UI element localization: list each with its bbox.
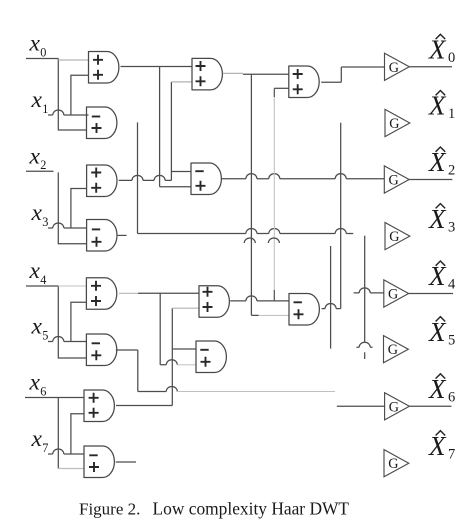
wire S3 output stub — [118, 234, 127, 236]
svg-text:x: x — [31, 426, 43, 452]
svg-text:4: 4 — [448, 277, 456, 293]
A1 plus top — [93, 55, 103, 65]
A6 plus bottom — [203, 302, 213, 312]
wire G4 output — [409, 293, 453, 295]
wire x1 up branch to A1 lower input — [71, 75, 89, 115]
svg-text:0: 0 — [448, 50, 455, 66]
svg-text:G: G — [389, 229, 399, 245]
svg-text:7: 7 — [42, 441, 48, 455]
wire x6 branch to S7 lower input (faint) — [58, 468, 84, 470]
A2 plus bottom — [196, 76, 206, 86]
wire x3 with hop over x2 branch — [48, 223, 87, 228]
wire S5 output to descent at x=137.8 — [116, 350, 138, 392]
wire x5 with hop over x4 branch — [48, 336, 86, 341]
svg-text:5: 5 — [448, 332, 455, 348]
node T-junction at (159.6, 66.5) vertical down to S2 lower input — [160, 67, 191, 187]
node T-junction at (160.2,293.3) vertical down to S6 lower input — [160, 293, 166, 365]
adder A5 (x4+x5) — [86, 277, 116, 310]
svg-text:G: G — [389, 116, 399, 132]
svg-text:6: 6 — [40, 384, 46, 398]
wire A3 output with hops over x=137.5 and x=159.6, corner up at x=171.4 — [119, 175, 172, 180]
S1 minus top — [92, 116, 100, 118]
subtractor S7 (x6-x7) — [84, 446, 114, 479]
wire branch to S2 top input — [171, 171, 191, 173]
subtractor S2 (s0-s1) — [191, 163, 221, 196]
svg-text:2: 2 — [448, 163, 455, 179]
adder A4 (sum -> X0) — [289, 66, 319, 99]
wire x7 with hop over x6 branch — [48, 449, 84, 454]
wire A6 lower input stub (faint) — [172, 307, 199, 309]
wire A6 output to S4 top input with hop over x=251.4 — [230, 296, 289, 301]
wire G2 output — [409, 179, 452, 181]
A1 plus bottom — [93, 70, 103, 80]
wire vertical x=364.7 (dangling, y235.6-359) — [364, 236, 366, 359]
A7 plus bottom — [89, 408, 99, 418]
adder A6 (s2+s3) — [199, 285, 229, 318]
S4 minus top — [294, 301, 302, 303]
wire S5 signal faint line to G6 region — [177, 391, 335, 393]
S7 minus top — [89, 454, 97, 456]
wire A5 output to A6 top input (faint near arc) — [119, 292, 138, 294]
wire x4 to adder A5 top input (faint) — [58, 285, 86, 287]
svg-text:G: G — [388, 342, 398, 358]
svg-text:G: G — [389, 399, 399, 415]
svg-text:x: x — [29, 143, 41, 169]
wire A4 output jog up to G0 — [321, 67, 384, 82]
S7 plus bottom — [89, 462, 99, 472]
wire x0 down branch at x=58 — [58, 59, 86, 131]
S6 minus top — [200, 349, 208, 351]
svg-text:4: 4 — [40, 273, 46, 287]
A7 plus top — [89, 393, 99, 403]
A3 plus bottom — [91, 183, 101, 193]
adder A3 (x2+x3) — [87, 165, 117, 198]
S6 plus bottom — [201, 357, 211, 367]
gain buffer G0 — [385, 53, 410, 80]
svg-text:Figure 2.: Figure 2. — [79, 500, 140, 519]
gain buffer G6 — [385, 393, 410, 420]
gain buffer G4 — [384, 280, 409, 307]
S3 minus top — [92, 228, 100, 230]
wire S3-row feed line from S1 (y=233.5) with hops, ends dangling — [138, 228, 354, 233]
wire G6 input — [337, 405, 385, 407]
wire x6 horizontal to A7 top input — [25, 397, 84, 399]
wire A1 output to A2 top input — [121, 66, 193, 68]
S2 minus top — [195, 170, 203, 172]
wire x4 horizontal — [26, 285, 58, 287]
S3 plus bottom — [92, 237, 102, 247]
wire A7 output to vertical x=172.3 — [116, 405, 172, 407]
wire x0 to adder A1 top input (faint) — [58, 59, 88, 61]
svg-text:7: 7 — [448, 446, 455, 462]
svg-text:x: x — [31, 87, 43, 113]
svg-text:Low complexity Haar DWT: Low complexity Haar DWT — [153, 499, 350, 519]
svg-text:3: 3 — [448, 219, 455, 235]
hop arc of invisible G5 feed over x=364.7 — [356, 342, 372, 347]
svg-text:x: x — [29, 370, 41, 396]
wire x1 with hop over x0 branch — [48, 110, 89, 115]
node T at (251.4,74.2) vertical down to S4 lower input — [251, 74, 258, 315]
svg-text:x: x — [31, 200, 43, 226]
wire vertical x=330.6 (dangling, y246-348.6) — [330, 246, 332, 349]
svg-text:x: x — [29, 258, 41, 284]
wire G0 output — [409, 66, 452, 68]
subtractor S3 (x2-x3) — [87, 219, 117, 252]
wire S4 output with hop over x=330.6 joining vertical x=340.7 — [322, 304, 341, 309]
svg-text:G: G — [389, 173, 399, 189]
adder A7 (x6+x7) — [84, 390, 114, 423]
wire G4 input with hop over x=364.7 — [354, 288, 384, 293]
wire x5 up branch to A5 lower input — [71, 302, 87, 341]
wire G6 output — [409, 405, 451, 407]
svg-text:0: 0 — [40, 45, 46, 59]
A2 plus top — [196, 61, 206, 71]
wire x7 up branch to A7 lower input — [71, 414, 84, 454]
wire x0 horizontal — [26, 58, 58, 60]
svg-text:G: G — [388, 456, 398, 472]
A5 plus top — [91, 281, 101, 291]
adder A2 (s0+s1) — [192, 58, 222, 91]
wire A4 lower input stub — [274, 87, 289, 89]
wire vertical x=171.4 from A2 lower input down to A3 output — [170, 82, 172, 180]
svg-text:x: x — [29, 31, 41, 57]
gain buffer G5 — [384, 336, 409, 363]
wire A2 output (faint near arc) to A4 top input — [223, 72, 243, 74]
svg-text:1: 1 — [448, 106, 455, 122]
wire branch to S6 top input — [172, 348, 196, 350]
subtractor S4 (diff -> X1) — [289, 293, 319, 326]
S5 plus bottom — [91, 350, 101, 360]
A4 plus bottom — [293, 84, 303, 94]
wire S7 output stub — [116, 461, 136, 463]
svg-text:G: G — [389, 60, 399, 76]
wire S1 output descent at x=137.5 — [137, 122, 139, 233]
subtractor S6 (s2-s3) — [196, 341, 226, 374]
S2 plus bottom — [196, 181, 206, 191]
wire x2 down branch at x=58 — [58, 172, 86, 243]
A4 plus top — [293, 69, 303, 79]
wire S2 output to G2 with hops over x=251.4, 274.3, 340.7 — [222, 174, 384, 179]
A3 plus top — [91, 168, 101, 178]
svg-text:G: G — [388, 287, 398, 303]
wire vertical x=274.3 from A4 lower input down to A6 output line (faint) — [273, 88, 275, 97]
hop of S6 lower input wire over x=172.3 — [166, 360, 177, 365]
subtractor S5 (x4-x5) — [86, 334, 116, 367]
S4 plus bottom — [294, 309, 304, 319]
A6 plus top — [203, 287, 213, 297]
svg-text:x: x — [31, 314, 43, 340]
S1 plus bottom — [92, 123, 102, 133]
wire x4 down branch at x=58 — [58, 286, 86, 358]
adder A1 (x0+x1) — [89, 51, 119, 84]
gain buffer G7 — [384, 450, 409, 477]
subtractor S1 (x0-x1) — [87, 107, 117, 140]
svg-text:3: 3 — [42, 215, 48, 229]
wire x6 down branch at x=58 — [57, 398, 59, 469]
wire vertical x=340.7 from S4 output up toward G1 (dangling) — [340, 123, 342, 309]
svg-text:2: 2 — [40, 158, 46, 172]
wire x2 horizontal — [26, 170, 54, 172]
wire A2 lower input stub (faint) — [171, 81, 192, 83]
gain buffer G2 — [384, 166, 409, 193]
S5 minus top — [92, 342, 100, 344]
wire S4 lower input continuation (faint) — [259, 314, 290, 316]
hop arcs of invisible feed line at y=242.5 over x=251.4 and x=274.3 — [244, 238, 279, 243]
gain buffer G1 — [385, 109, 410, 136]
A5 plus bottom — [91, 296, 101, 306]
wire vertical x=172.3 from A6 lower input down to A7 output — [171, 308, 173, 405]
svg-text:6: 6 — [448, 390, 455, 406]
wire S5 signal hop over x=172.3 at y=391.5 — [138, 391, 167, 393]
svg-text:1: 1 — [42, 102, 48, 116]
wire x3 up branch to A3 lower input — [71, 189, 87, 229]
gain buffer G3 — [385, 223, 410, 250]
wire S6 lower input after hop (faint) — [177, 364, 196, 366]
svg-text:5: 5 — [42, 328, 48, 342]
